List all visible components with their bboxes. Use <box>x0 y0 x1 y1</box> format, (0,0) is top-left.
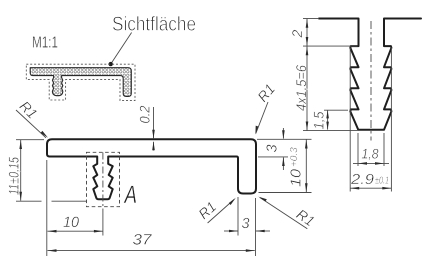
detail profile <box>319 19 421 130</box>
dim 2 (detail) <box>303 18 319 20</box>
extension line barb center <box>102 212 104 236</box>
R1 bottom-left of leg <box>196 199 220 223</box>
extension line leg left <box>237 197 239 236</box>
svg-text:Sichtfläche: Sichtfläche <box>112 14 196 36</box>
barb centerline (main view) <box>102 153 104 213</box>
svg-text:2: 2 <box>289 30 305 39</box>
Sichtflaeche leader dot <box>109 62 113 66</box>
detail centerline <box>370 21 372 141</box>
dim 3 (bar thickness, right) <box>257 138 312 140</box>
svg-text:A: A <box>123 181 137 209</box>
dim 37 <box>48 250 255 252</box>
svg-text:+0.3: +0.3 <box>289 147 300 167</box>
dim 0.2 <box>153 107 155 138</box>
dim 2.9 +-0.1 (detail) <box>350 187 391 189</box>
svg-text:3: 3 <box>265 144 281 152</box>
extension line right end <box>255 198 257 256</box>
1:1 profile solid body <box>30 68 131 97</box>
R1 top-right <box>255 81 279 105</box>
svg-text:M1:1: M1:1 <box>32 35 58 52</box>
dim 1,5 (detail) <box>324 109 348 111</box>
svg-text:10: 10 <box>289 169 305 187</box>
svg-text:1,8: 1,8 <box>362 146 379 162</box>
1:1 profile dashed outline <box>26 64 135 100</box>
main view: profile outline <box>47 139 256 199</box>
svg-text:0.2: 0.2 <box>137 105 153 123</box>
svg-text:1,5: 1,5 <box>311 111 327 129</box>
svg-text:10: 10 <box>63 214 80 231</box>
Sichtflaeche leader <box>111 33 132 65</box>
detail envelope thin lines <box>349 48 351 192</box>
svg-text:2.9: 2.9 <box>350 172 374 188</box>
svg-text:37: 37 <box>133 232 153 249</box>
svg-text:3: 3 <box>242 216 250 232</box>
detail A dashed box <box>87 152 120 206</box>
svg-text:11±0,15: 11±0,15 <box>6 157 22 195</box>
R1 bottom-right of leg <box>293 207 317 230</box>
dim 10 <box>48 230 103 232</box>
extension line left end (x=46.8) <box>46 160 48 256</box>
dim 11 +-0,15 left <box>16 139 44 141</box>
dim 3 (leg width) <box>224 230 238 232</box>
dim 4x1,5=6 (detail) <box>303 130 358 132</box>
svg-text:±0.1: ±0.1 <box>375 176 389 187</box>
dim 10 +0.3 (leg height) <box>259 192 312 194</box>
R1 top-left <box>16 98 40 122</box>
dim 1,8 (detail) <box>357 133 359 166</box>
svg-text:4x1,5=6: 4x1,5=6 <box>293 65 309 111</box>
